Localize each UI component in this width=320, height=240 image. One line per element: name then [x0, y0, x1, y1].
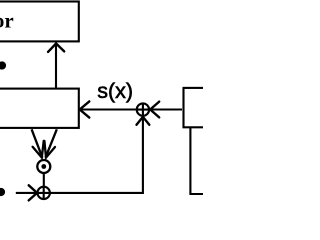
- wire: AND circle down to bottom adder: [43, 173, 45, 187]
- svg-text:s(x): s(x): [97, 79, 133, 103]
- wire: short horizontal into bottom adder: [16, 192, 37, 194]
- wire: fan arrow right from middle box bottom into AND circle: [46, 129, 57, 157]
- node: lower-left junction dot: [0, 188, 5, 196]
- arrowhead left into middle box: [80, 101, 90, 117]
- box: top-left register (cut off at left), label "...or": [0, 2, 79, 42]
- wire: from bottom adder right, along bottom and up into adder X1: [50, 118, 143, 193]
- box: right register (cut off at right): [184, 88, 224, 127]
- wire: vertical from middle box up to top box: [55, 44, 57, 87]
- wire: fan arrow left from middle box bottom into AND circle: [32, 129, 43, 157]
- wire: from right box bottom, down and out right edge: [190, 128, 203, 195]
- arrowhead right into bottom adder: [29, 185, 37, 200]
- adder X2: circled plus bottom-left: [38, 187, 50, 199]
- arrowhead up into top box: [48, 44, 64, 52]
- gate: AND / multiplier circle with dot: [37, 160, 50, 173]
- wire: horizontal from right box to middle box: [81, 108, 183, 110]
- node: upper-left junction dot: [0, 61, 6, 69]
- adder X1: circled plus on s(x) line: [137, 103, 149, 115]
- arrowhead up into adder X1 from below: [137, 117, 150, 125]
- arrowhead left into adder X1 (from right box): [150, 102, 159, 118]
- svg-text:or: or: [0, 9, 14, 33]
- box: middle-left register (cut off at left): [0, 89, 79, 128]
